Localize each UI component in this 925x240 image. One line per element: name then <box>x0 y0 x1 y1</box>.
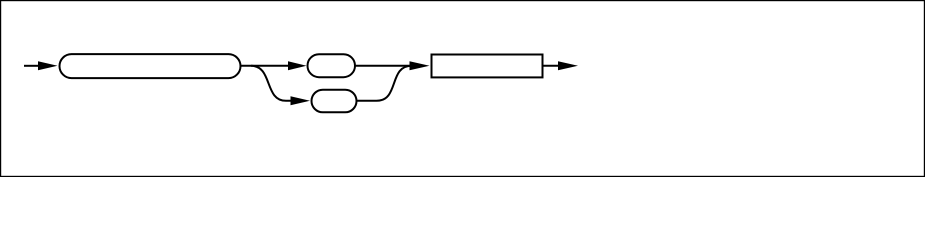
wire: branch-down curve <box>251 66 291 101</box>
wire: exit line <box>543 65 560 67</box>
wire: upper pill to merge arrow <box>355 65 411 67</box>
terminal pill: large rounded box <box>60 54 241 78</box>
wire: pill to branch arrow <box>241 65 290 67</box>
terminal pill: lower small rounded box <box>312 90 357 113</box>
arrowhead: exit arrow <box>558 61 578 70</box>
arrowhead: arrow into rectangle <box>410 61 430 70</box>
terminal pill: upper small rounded box <box>308 54 356 77</box>
arrowhead: lower branch arrow <box>291 96 311 105</box>
wire: entry line <box>24 65 40 67</box>
nonterminal rectangle box <box>432 55 543 78</box>
arrowhead: entry arrow <box>38 61 58 70</box>
arrowhead: upper branch arrow <box>288 61 307 70</box>
wire: merge-up curve <box>357 66 412 101</box>
outer border frame <box>1 1 925 177</box>
